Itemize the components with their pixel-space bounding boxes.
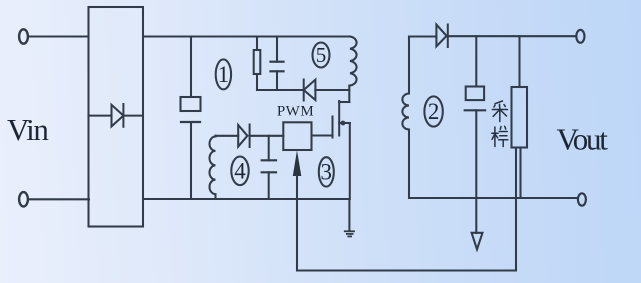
op-amp U1 (PWM controller) — [277, 104, 314, 151]
wire gate — [312, 134, 333, 136]
wire feedback riser — [515, 148, 517, 271]
resistor R2 (sampling) — [512, 36, 528, 198]
svg-text:4: 4 — [234, 158, 246, 183]
diode D4 — [238, 125, 283, 148]
svg-text:1: 1 — [218, 62, 230, 87]
diode D3 (output rectifier) — [436, 25, 576, 48]
wire drain — [348, 86, 350, 103]
transistor Q1 (MOSFET) — [333, 101, 350, 199]
capacitor C2 (output cap) — [465, 36, 485, 233]
node caiyang text (drawn strokes) — [492, 101, 508, 147]
wire source to ground — [348, 199, 350, 231]
transformer secondary winding — [402, 37, 409, 199]
svg-text:3: 3 — [321, 159, 333, 184]
wire clamp node — [257, 89, 304, 91]
label 5 — [313, 43, 330, 68]
bridge rectifier — [89, 7, 144, 227]
wire feedback — [297, 269, 516, 271]
clamp capacitor C3 — [271, 37, 284, 91]
feedback arrow into PWM — [293, 150, 302, 270]
load arrow — [472, 233, 483, 250]
capacitor C1 (input bulk cap) — [181, 37, 201, 200]
wire — [28, 35, 88, 37]
svg-text:Vout: Vout — [557, 122, 609, 157]
terminal IN+ — [19, 29, 28, 43]
wire secondary top — [409, 35, 436, 37]
diode inside bridge — [89, 104, 144, 127]
ground — [345, 231, 354, 236]
transformer aux winding — [210, 136, 239, 199]
label 3 — [319, 157, 334, 186]
svg-text:PWM: PWM — [277, 104, 314, 120]
wire secondary bottom rail — [409, 197, 578, 199]
wire top rail — [143, 35, 350, 37]
label 1 — [216, 59, 231, 89]
clamp resistor R1 — [254, 37, 261, 91]
wire — [28, 198, 89, 200]
capacitor C4 — [262, 136, 276, 199]
label 2 — [424, 96, 442, 126]
svg-text:Vin: Vin — [7, 112, 49, 147]
terminal OUT+ — [576, 30, 584, 43]
label 4 — [231, 157, 248, 186]
terminal OUT- — [578, 193, 586, 205]
transformer primary winding — [350, 37, 357, 86]
svg-text:2: 2 — [428, 99, 440, 124]
wire bottom rail — [143, 198, 349, 200]
svg-text:5: 5 — [316, 43, 327, 67]
clamp diode D1 — [304, 80, 350, 101]
terminal IN- — [19, 192, 28, 206]
